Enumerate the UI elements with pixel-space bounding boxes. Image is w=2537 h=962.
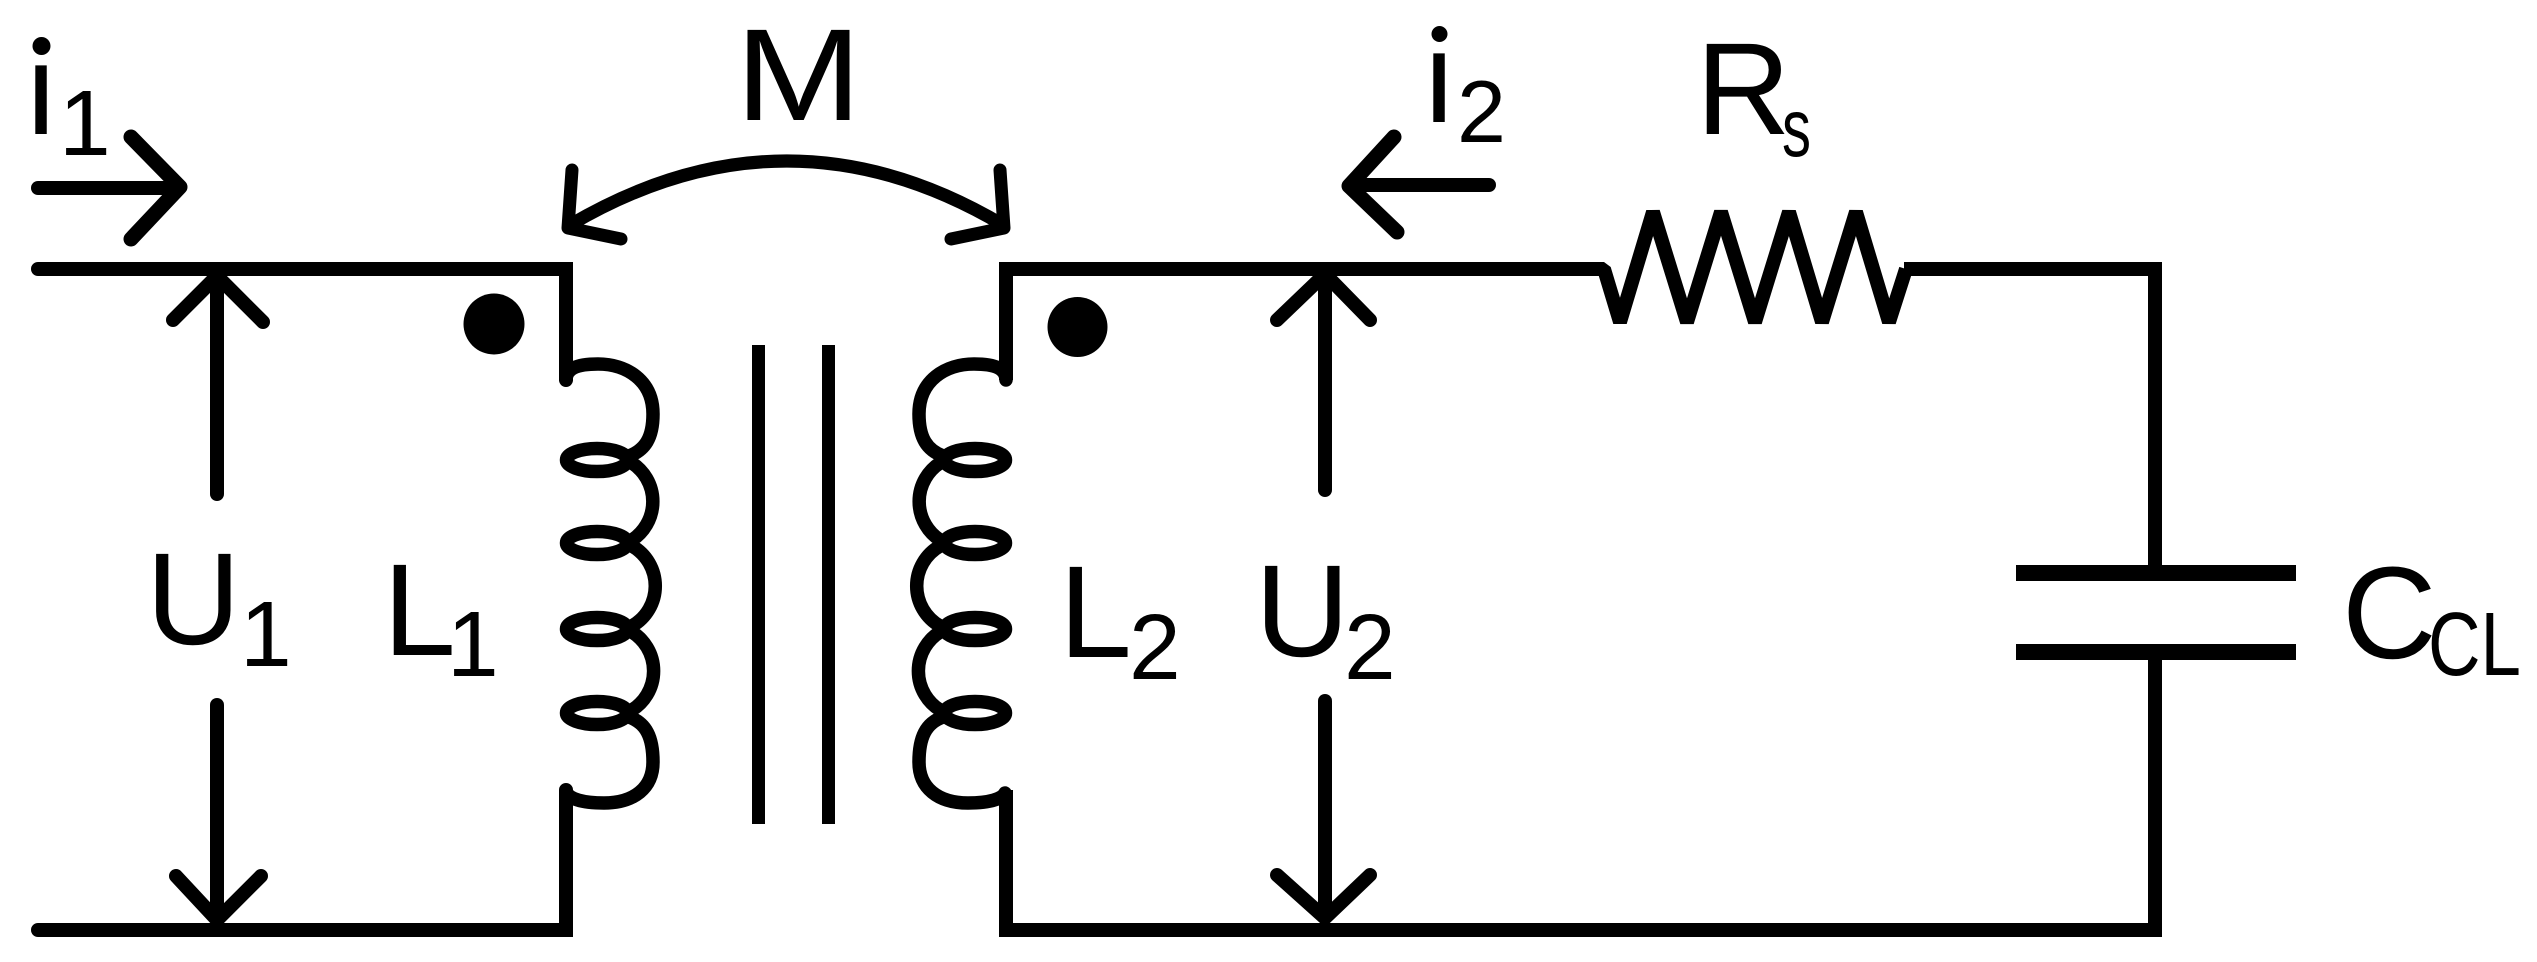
inductor L2 coil (mirror of L1)	[917, 364, 1006, 803]
current arrow i2	[1349, 137, 1489, 232]
label U1	[146, 525, 292, 686]
svg-text:L: L	[1059, 538, 1132, 685]
label i2	[1421, 4, 1506, 161]
wire top-right (L2 top to resistor)	[1006, 269, 1599, 380]
label U2	[1255, 537, 1396, 699]
polarity dot primary	[464, 294, 525, 355]
current arrow i1	[38, 137, 180, 239]
inductor L1 coil	[566, 364, 655, 803]
wire top-left (node from i1 into L1 top)	[38, 269, 566, 380]
label CCL	[2342, 539, 2521, 695]
voltage arrow U2	[1277, 274, 1370, 918]
label M (mutual inductance)	[735, 1, 862, 148]
polarity dot secondary	[1048, 297, 1108, 357]
svg-text:L: L	[383, 536, 456, 683]
svg-text:U: U	[146, 525, 241, 672]
label Rs	[1696, 15, 1811, 174]
mutual coupling arc arrow M	[568, 161, 1004, 239]
svg-text:s: s	[1782, 81, 1811, 174]
svg-text:M: M	[735, 1, 862, 148]
svg-text:U: U	[1255, 537, 1350, 684]
svg-text:2: 2	[1129, 595, 1181, 699]
svg-text:CL: CL	[2428, 595, 2521, 695]
svg-text:ı: ı	[1421, 4, 1457, 150]
svg-text:R: R	[1696, 15, 1791, 162]
resistor Rs zigzag	[1599, 212, 2155, 566]
svg-text:1: 1	[59, 71, 111, 175]
svg-text:1: 1	[447, 592, 499, 696]
label L1	[383, 536, 499, 696]
svg-text:1: 1	[240, 582, 292, 686]
wire bottom-left (L1 bottom return)	[38, 790, 566, 930]
label L2	[1059, 538, 1181, 699]
capacitor CCL plates	[2016, 573, 2296, 652]
svg-text:2: 2	[1344, 595, 1396, 699]
label i1	[23, 16, 111, 175]
svg-text:C: C	[2342, 539, 2437, 686]
svg-text:2: 2	[1457, 62, 1506, 161]
transformer core lines	[759, 345, 829, 824]
wire bottom-right (L2 bottom to capacitor)	[1006, 660, 2155, 930]
voltage arrow U1	[173, 276, 263, 920]
